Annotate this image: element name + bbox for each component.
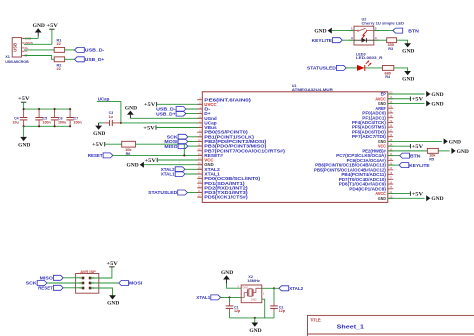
wire [188, 136, 202, 138]
capacitor C3 [104, 111, 121, 126]
resistor R2 [54, 57, 64, 71]
wire [388, 193, 410, 195]
svg-text:PD5(XCK1/CTS#): PD5(XCK1/CTS#) [204, 195, 248, 200]
svg-text:R4: R4 [385, 75, 391, 79]
resistor R6 [122, 141, 136, 156]
svg-text:Cherry 1U simple LED: Cherry 1U simple LED [362, 22, 405, 26]
net label XTAL2 [161, 167, 185, 172]
svg-text:12p: 12p [279, 309, 286, 313]
svg-text:GND: GND [457, 150, 470, 155]
svg-text:+5V: +5V [18, 97, 30, 102]
power +5V [106, 262, 118, 267]
net label MISO [164, 144, 187, 149]
svg-text:SCK: SCK [26, 281, 38, 286]
svg-text:2: 2 [375, 27, 377, 31]
net label MISO [40, 275, 63, 280]
ground [314, 28, 331, 35]
svg-text:12p: 12p [234, 309, 241, 313]
svg-text:XTAL2: XTAL2 [289, 286, 303, 291]
power +5V [46, 24, 58, 29]
svg-text:GND: GND [431, 102, 444, 107]
wire [374, 39, 387, 41]
wire [97, 101, 121, 123]
net label USB_D+ [75, 57, 105, 62]
svg-text:GND: GND [125, 106, 138, 111]
capacitor C1 [226, 297, 241, 318]
wire [388, 102, 425, 104]
wire [51, 29, 53, 44]
svg-text:+5V: +5V [412, 98, 424, 103]
net label BTN [400, 153, 422, 158]
wire [24, 36, 38, 38]
svg-text:GND: GND [251, 299, 257, 302]
svg-text:100n: 100n [74, 121, 82, 125]
svg-text:KEYLITE: KEYLITE [409, 163, 429, 168]
wire [388, 197, 425, 199]
svg-text:GND: GND [402, 77, 415, 82]
power +5V [144, 102, 157, 108]
svg-text:16MHz: 16MHz [247, 279, 260, 283]
net label USB_D+ [156, 111, 186, 116]
svg-text:+5V: +5V [46, 24, 58, 29]
svg-text:GND: GND [127, 164, 140, 169]
wire [388, 145, 410, 147]
net label XTAL2 [279, 286, 304, 291]
net label STATUSLED [148, 190, 187, 195]
ic U1 ATMEGA32U4-MUR [197, 84, 393, 203]
wire [63, 277, 83, 279]
net label KEYLITE [312, 38, 343, 43]
net label RESET [38, 285, 63, 290]
junction [183, 154, 185, 156]
wire [332, 30, 354, 32]
capacitor C4 [12, 109, 27, 126]
net label MOSI [164, 139, 187, 144]
wire [157, 103, 203, 105]
wire [99, 122, 104, 124]
svg-text:GND: GND [431, 197, 444, 202]
svg-text:Sheet_1: Sheet_1 [337, 324, 365, 330]
wire [47, 282, 83, 284]
svg-text:GND: GND [93, 132, 106, 137]
wire [388, 164, 399, 166]
wire [185, 168, 202, 170]
wire [186, 113, 202, 115]
svg-text:X1: X1 [5, 55, 10, 59]
wire [130, 117, 202, 119]
svg-text:+5V: +5V [143, 126, 155, 131]
ground [33, 24, 46, 36]
svg-text:GND: GND [107, 302, 120, 307]
svg-text:MOSI: MOSI [129, 281, 142, 286]
net label UCap [98, 96, 110, 101]
crystal X2 [237, 275, 265, 303]
net label STATUSLED [307, 65, 346, 70]
svg-text:+5V: +5V [412, 192, 424, 197]
svg-text:+5V: +5V [106, 262, 118, 267]
net label MOSI [119, 281, 143, 286]
ground [127, 162, 144, 169]
wire [388, 93, 425, 95]
svg-text:GND: GND [221, 271, 234, 276]
wire [24, 56, 54, 60]
wire [262, 299, 265, 318]
wire [23, 102, 25, 109]
ground [221, 271, 234, 283]
title block [308, 315, 474, 336]
junction [120, 122, 122, 124]
svg-text:GND: GND [402, 50, 415, 55]
net label SCK [167, 134, 188, 139]
wire [105, 143, 122, 145]
svg-text:RESET: RESET [88, 153, 103, 158]
svg-text:R3: R3 [388, 47, 393, 51]
svg-text:GND: GND [314, 30, 327, 35]
wire [342, 39, 354, 41]
svg-text:BTN: BTN [408, 28, 419, 33]
resistor R5 [427, 148, 438, 161]
wire [24, 125, 71, 127]
ground [18, 126, 31, 148]
svg-text:100n: 100n [58, 121, 66, 125]
wire [186, 108, 202, 110]
svg-text:BTN: BTN [410, 153, 421, 158]
svg-text:2: 2 [263, 293, 265, 295]
wire [188, 141, 202, 143]
wire [388, 150, 427, 152]
ground [107, 295, 120, 306]
switch U2 Cherry key [349, 17, 404, 45]
svg-text:USB_D-: USB_D- [85, 48, 105, 53]
svg-text:GND: GND [18, 143, 31, 148]
wire [90, 282, 119, 284]
svg-text:USB_D+: USB_D+ [156, 111, 176, 116]
svg-text:USB: USB [13, 43, 18, 52]
net label BTN [393, 28, 420, 33]
connector X1 USB-MICROB [5, 36, 33, 64]
svg-text:UCap: UCap [98, 96, 110, 101]
power +5V [18, 97, 30, 102]
wire [188, 145, 202, 147]
power +5V [410, 191, 423, 197]
wire [24, 49, 54, 51]
ground [426, 100, 444, 107]
wire [90, 267, 112, 278]
wire [144, 164, 202, 166]
wire [156, 127, 202, 129]
wire [346, 67, 357, 69]
svg-text:KEYLITE: KEYLITE [312, 38, 332, 43]
svg-text:+5V: +5V [92, 143, 104, 148]
junction [273, 287, 275, 289]
ground [444, 138, 462, 145]
capacitor C2 [270, 288, 286, 318]
wire [365, 67, 383, 69]
svg-text:GND: GND [449, 140, 462, 145]
ground [249, 318, 262, 334]
wire [121, 122, 202, 124]
ground [451, 148, 469, 155]
wire [388, 98, 410, 100]
wire [227, 283, 242, 288]
junction [228, 296, 230, 298]
power +5V [145, 158, 158, 164]
svg-text:+5V: +5V [412, 145, 424, 150]
wire [157, 159, 202, 161]
net label KEYLITE [399, 163, 430, 168]
net label RESET [88, 153, 113, 158]
power +5V [143, 125, 156, 131]
wire [374, 30, 393, 32]
connector AVR ISP [76, 270, 99, 293]
svg-text:1u: 1u [109, 115, 113, 119]
wire [24, 108, 71, 110]
svg-text:R5: R5 [429, 158, 434, 162]
wire [24, 43, 52, 45]
led LED3 [356, 52, 383, 71]
power +5V [92, 142, 105, 148]
wire [65, 49, 75, 51]
wire [397, 40, 408, 44]
wire [438, 150, 449, 152]
net label XTAL1 [196, 295, 220, 300]
wire [65, 58, 75, 60]
svg-text:USB_D+: USB_D+ [85, 57, 105, 62]
resistor R3 [387, 38, 397, 51]
junction [23, 108, 72, 110]
svg-text:STATUSLED: STATUSLED [307, 66, 337, 71]
ground [402, 43, 415, 54]
svg-text:22: 22 [56, 67, 60, 71]
junction [23, 125, 72, 127]
svg-text:GND: GND [243, 287, 249, 290]
ground [125, 106, 138, 118]
svg-text:4: 4 [375, 36, 377, 40]
capacitor C7 [66, 109, 81, 126]
net label USB_D- [156, 107, 186, 112]
power +5V [410, 144, 423, 150]
capacitor C5 [35, 109, 50, 126]
svg-text:GND: GND [431, 93, 444, 98]
ground [426, 91, 444, 98]
wire [188, 192, 203, 194]
resistor R4 [382, 65, 393, 79]
power +5V [410, 97, 423, 103]
svg-text:100n: 100n [43, 121, 51, 125]
junction [254, 317, 256, 319]
wire [113, 154, 202, 156]
svg-text:1: 1 [351, 27, 353, 31]
net label USB_D- [75, 47, 105, 52]
svg-text:USB-MICROB: USB-MICROB [5, 60, 29, 64]
wire [262, 287, 279, 289]
net label XTAL1 [161, 172, 185, 177]
svg-text:XTAL1: XTAL1 [196, 295, 210, 300]
wire [221, 296, 242, 298]
wire [90, 288, 112, 296]
svg-text:22: 22 [56, 42, 60, 46]
svg-text:GND: GND [378, 196, 386, 201]
svg-text:STATUSLED: STATUSLED [148, 190, 178, 195]
ground [402, 71, 415, 82]
wire [388, 140, 442, 142]
svg-text:GND: GND [249, 329, 262, 334]
svg-text:LED-0603_R: LED-0603_R [356, 56, 383, 60]
svg-text:GND: GND [33, 24, 46, 29]
wire [136, 144, 185, 155]
svg-text:XTAL1: XTAL1 [161, 172, 175, 177]
svg-text:MISO: MISO [164, 144, 178, 149]
wire [63, 287, 83, 289]
wire [230, 317, 275, 319]
net label SCK [26, 281, 47, 286]
svg-text:3: 3 [351, 36, 353, 40]
ground [93, 123, 106, 137]
svg-text:MISO: MISO [40, 276, 54, 281]
svg-text:RESET: RESET [38, 286, 53, 291]
resistor R1 [54, 38, 64, 52]
svg-text:10u: 10u [12, 121, 18, 125]
svg-text:TITLE:: TITLE: [310, 317, 321, 322]
ground [426, 195, 444, 202]
wire [185, 173, 202, 175]
wire [394, 68, 408, 72]
wire [388, 155, 400, 157]
svg-text:+5V: +5V [145, 159, 157, 164]
svg-text:+5V: +5V [144, 103, 156, 108]
capacitor C6 [51, 109, 66, 126]
